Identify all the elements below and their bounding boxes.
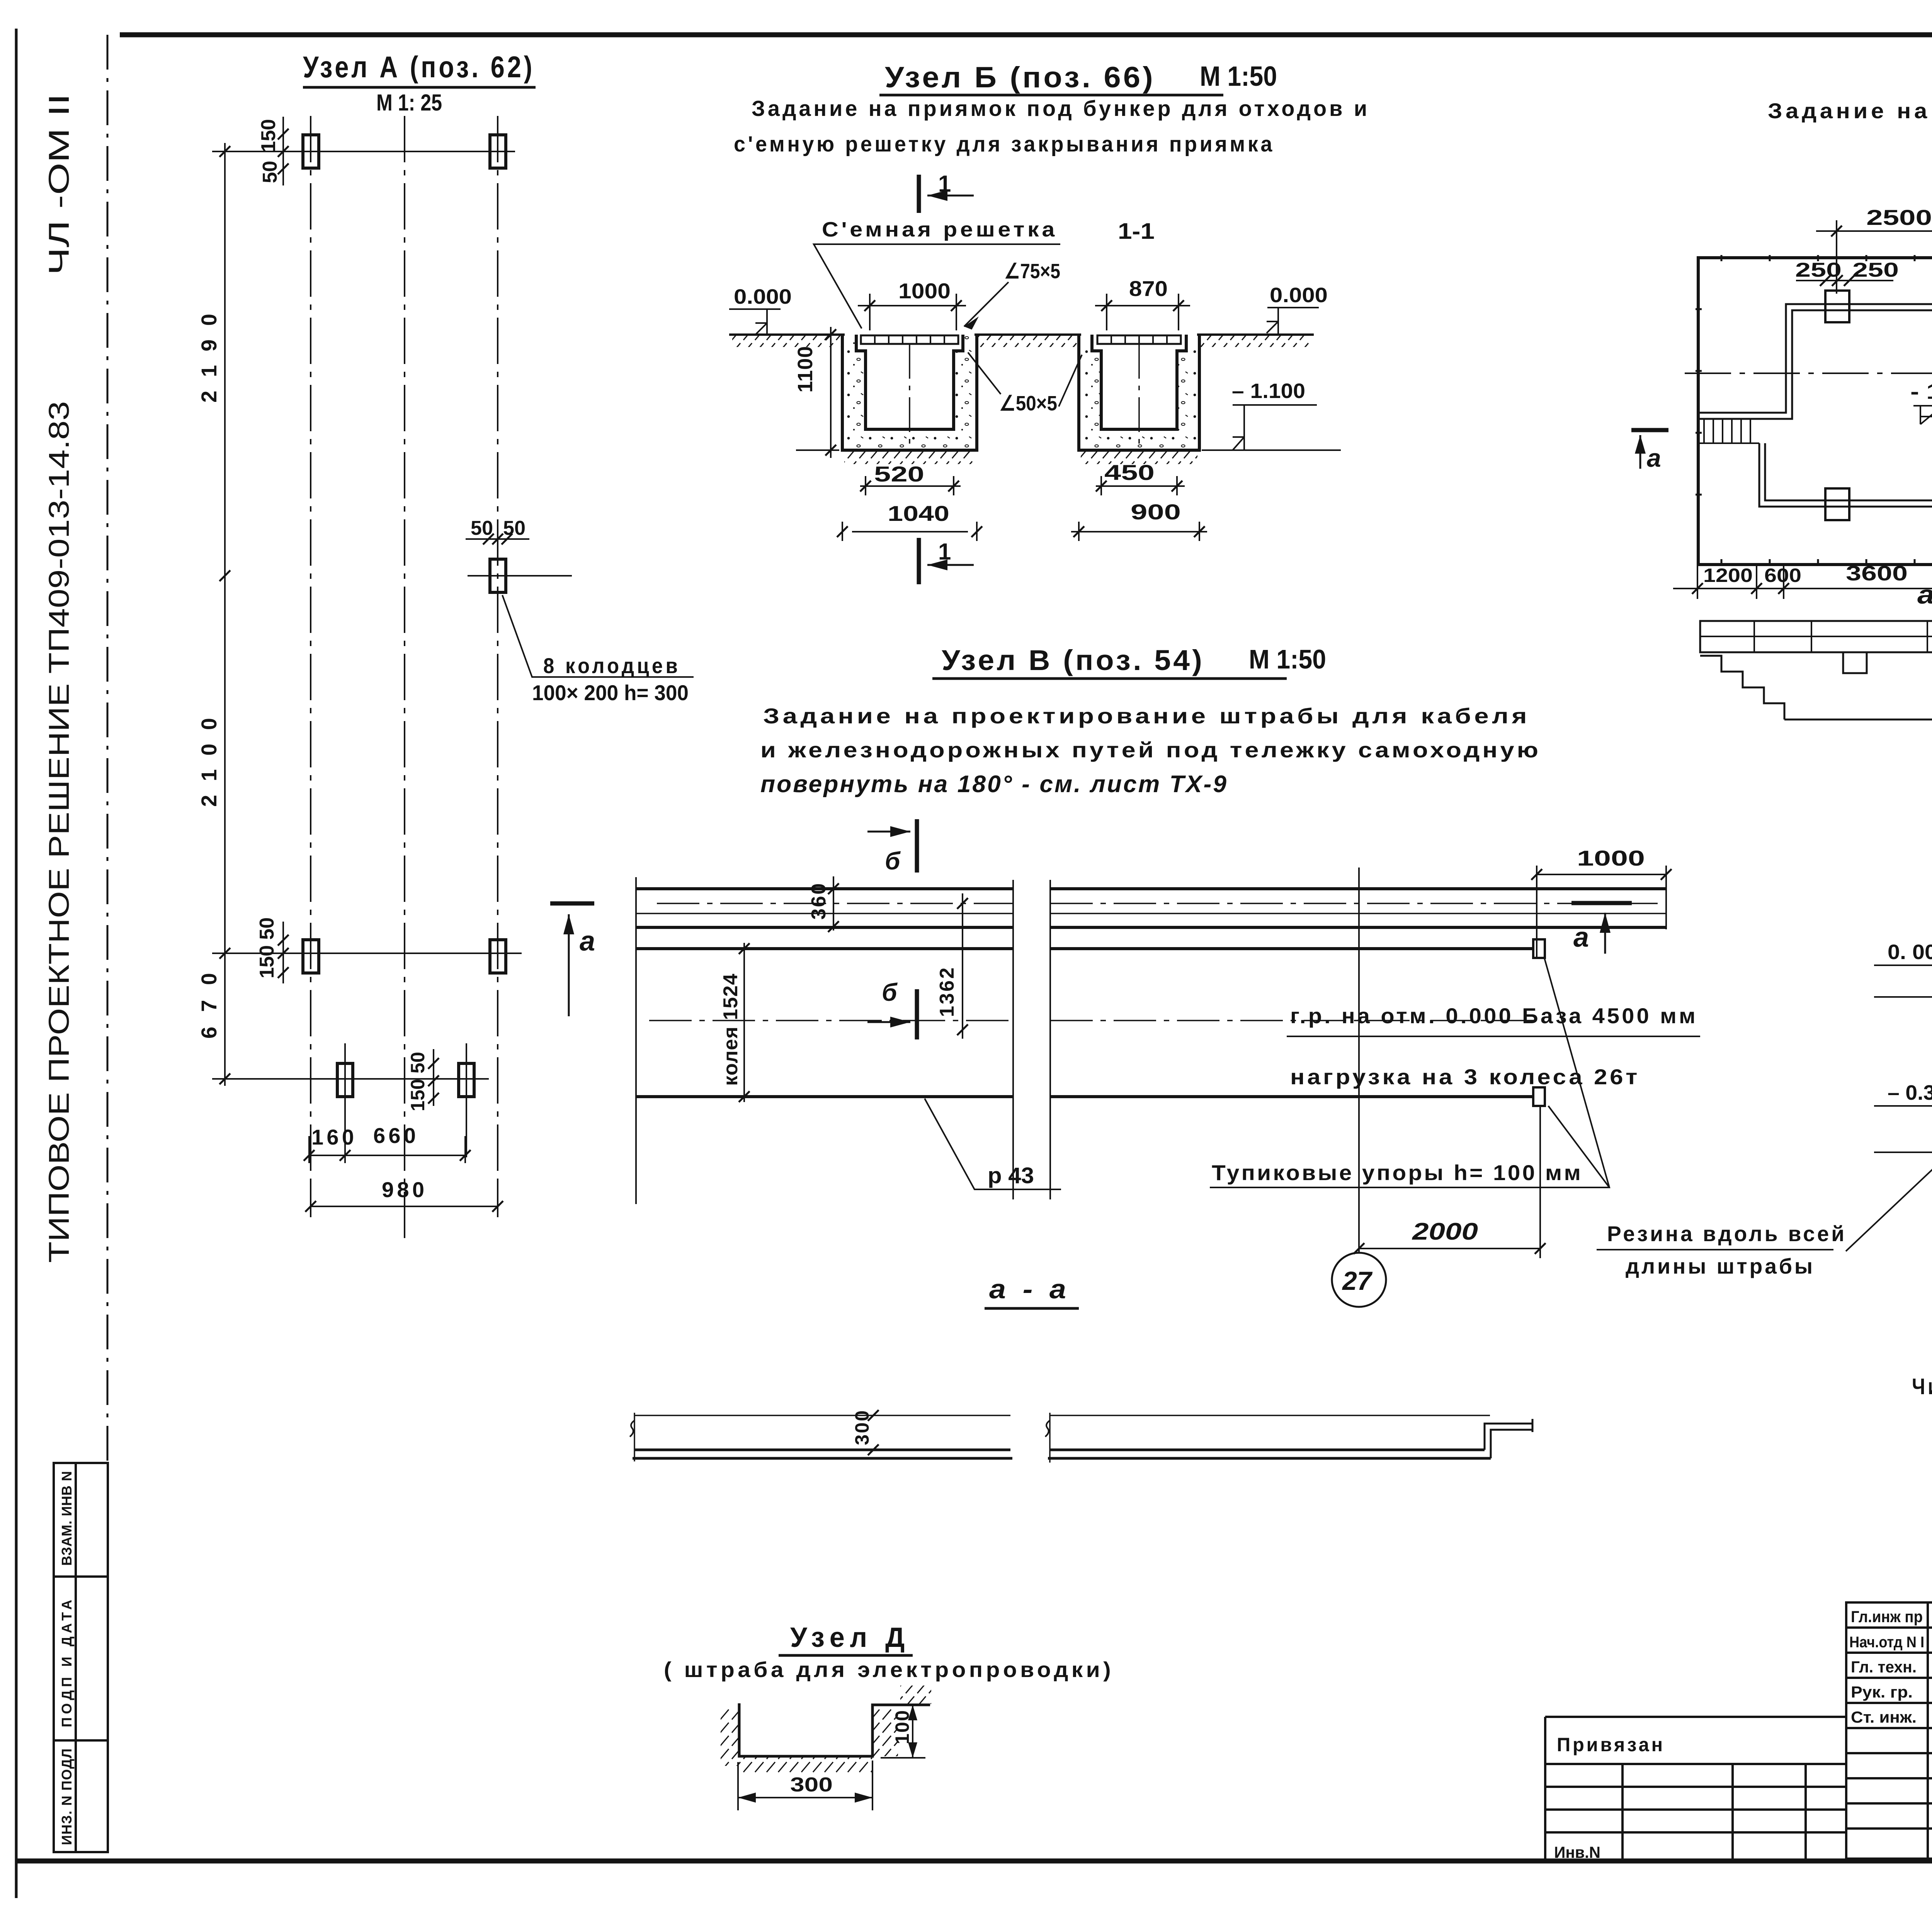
left band rail lines <box>633 1450 1012 1458</box>
svg-text:б: б <box>882 978 898 1006</box>
rails left end line <box>635 877 637 1204</box>
svg-text:50: 50 <box>407 1052 429 1073</box>
svg-text:1: 1 <box>938 539 951 565</box>
Г section stairs <box>1700 656 1784 720</box>
callout leader 8 колодцев <box>502 595 694 677</box>
column well r1c2 <box>490 135 506 168</box>
pit1 concrete walls <box>842 335 977 450</box>
svg-text:Узел А (поз. 62): Узел А (поз. 62) <box>303 50 535 84</box>
sheet top border <box>120 32 1932 37</box>
svg-text:1100: 1100 <box>794 346 817 393</box>
svg-text:600: 600 <box>1764 565 1801 586</box>
svg-text:1200: 1200 <box>1703 565 1753 586</box>
sheet bottom border <box>16 1859 1932 1864</box>
svg-text:1000: 1000 <box>898 279 951 303</box>
dim 50/150 row3 line <box>433 1049 434 1106</box>
axis row mid horizontal <box>468 575 572 577</box>
column well r2c1 <box>303 940 319 973</box>
buffer stop square top <box>1533 939 1545 958</box>
column well r1c1 <box>303 135 319 168</box>
dim 50/50 line <box>466 538 529 540</box>
ground line middle <box>975 333 1081 336</box>
section mark 1 bottom <box>917 538 921 584</box>
svg-text:980: 980 <box>382 1177 424 1202</box>
pit1 under-slab hatch <box>844 452 975 464</box>
trench hatch right wall <box>873 1708 898 1756</box>
svg-text:ИНЗ. N ПОДЛ: ИНЗ. N ПОДЛ <box>59 1749 75 1845</box>
axis row 3 horizontal <box>212 1078 489 1080</box>
leader резина <box>1846 1016 1932 1251</box>
svg-text:колея 1524: колея 1524 <box>719 974 742 1086</box>
svg-text:Ст. инж.: Ст. инж. <box>1851 1708 1917 1726</box>
svg-text:1-1: 1-1 <box>1118 219 1155 244</box>
svg-text:С'емная решетка: С'емная решетка <box>822 218 1058 241</box>
svg-text:Узел В (поз. 54): Узел В (поз. 54) <box>942 644 1204 676</box>
svg-text:870: 870 <box>1129 276 1168 301</box>
column well r3c1 <box>337 1063 353 1097</box>
plan edge ticks bottom <box>1721 559 1932 565</box>
dim 160/660 ticks <box>304 1150 471 1161</box>
right band end step <box>1485 1419 1532 1458</box>
section mark a right <box>1571 901 1632 905</box>
svg-text:а: а <box>580 926 595 957</box>
svg-text:Нач.отд N I: Нач.отд N I <box>1849 1634 1924 1651</box>
svg-text:8 колодцев: 8 колодцев <box>543 653 680 678</box>
break marks <box>630 1420 1050 1437</box>
axis line vertical 1 <box>310 116 311 1209</box>
svg-text:Тупиковые упоры h= 100 мм: Тупиковые упоры h= 100 мм <box>1212 1160 1583 1185</box>
pit inner contour outer line <box>1699 304 1932 507</box>
svg-text:Задание на проектирование ш: Задание на проектирование штрабы для каб… <box>763 704 1530 728</box>
svg-text:2500: 2500 <box>1866 205 1932 230</box>
ground line left <box>729 333 845 336</box>
svg-text:300: 300 <box>790 1774 833 1796</box>
svg-text:Задание на проектирование п: Задание на проектирование приямка и опор… <box>1768 99 1932 123</box>
svg-text:0.000: 0.000 <box>734 285 792 308</box>
svg-text:Узел Д: Узел Д <box>790 1622 910 1653</box>
svg-text:50: 50 <box>503 517 526 539</box>
dim 160/660 line <box>309 1136 465 1163</box>
привязан table <box>1545 1717 1846 1861</box>
tick r1 <box>219 146 230 157</box>
left band end line <box>634 1413 635 1461</box>
pit2 axis <box>1138 344 1140 444</box>
svg-text:– 1.100: – 1.100 <box>1232 379 1305 403</box>
rail break line right <box>1049 880 1051 1199</box>
svg-text:ПОДП И ДАТА: ПОДП И ДАТА <box>59 1600 75 1727</box>
section mark б lower <box>915 989 919 1039</box>
svg-text:300: 300 <box>851 1410 873 1445</box>
wide track rail 2 <box>636 1095 1533 1098</box>
pit1 outline <box>842 335 977 450</box>
axis line vertical 3 <box>497 116 498 1209</box>
node circle 27 <box>1332 1253 1386 1307</box>
pit inner contour inner line <box>1699 310 1932 500</box>
plan edge ticks left/right <box>1696 309 1932 495</box>
Г section а-а: slab band <box>1700 621 1932 652</box>
svg-text:1000: 1000 <box>1577 846 1645 870</box>
svg-text:1: 1 <box>938 171 951 197</box>
svg-text:∠50×5: ∠50×5 <box>999 392 1057 415</box>
buffer stop square bottom <box>1533 1087 1545 1106</box>
section mark a left (plan Г) <box>1631 428 1668 432</box>
svg-text:ЧЛ -ОМ II: ЧЛ -ОМ II <box>43 94 75 275</box>
section mark б top <box>915 819 919 873</box>
svg-text:660: 660 <box>373 1123 416 1148</box>
svg-text:р 43: р 43 <box>988 1163 1034 1188</box>
svg-text:а: а <box>1647 444 1661 472</box>
pit2 concrete walls <box>1079 335 1199 450</box>
trench hatch left <box>721 1708 739 1766</box>
sheet left border <box>15 29 18 1898</box>
narrow track rail 2 <box>636 926 1666 929</box>
svg-text:( штраба для электропроводки: ( штраба для электропроводки) <box>664 1657 1114 1682</box>
pit2 outline <box>1079 335 1199 450</box>
stairs in plan <box>1699 419 1759 443</box>
right band top line <box>1050 1415 1490 1416</box>
svg-text:– 0.300: – 0.300 <box>1888 1081 1932 1104</box>
svg-text:250: 250 <box>1795 259 1842 281</box>
plan outer wall <box>1698 258 1932 565</box>
svg-text:Задание на приямок под бунк: Задание на приямок под бункер для отходо… <box>752 96 1370 121</box>
support bottom-left <box>1825 488 1849 520</box>
dim 980 line <box>311 1182 498 1217</box>
svg-text:ВЗАМ. ИНВ N: ВЗАМ. ИНВ N <box>59 1471 75 1566</box>
svg-text:50: 50 <box>259 161 281 183</box>
right band rail lines <box>1048 1450 1491 1458</box>
section mark a left <box>550 902 594 906</box>
tick r3 <box>219 1073 230 1084</box>
svg-text:250: 250 <box>1852 259 1899 281</box>
svg-text:Гл. техн.: Гл. техн. <box>1851 1658 1917 1676</box>
svg-text:150: 150 <box>257 119 280 152</box>
svg-text:Рук. гр.: Рук. гр. <box>1851 1683 1913 1701</box>
dim 50/150 row2 line <box>282 922 284 983</box>
svg-text:50: 50 <box>256 917 278 940</box>
left band top line <box>634 1415 1010 1416</box>
right band left end line <box>1049 1413 1051 1463</box>
plan edge ticks top <box>1721 255 1932 261</box>
dim 150/50 row1 ticks <box>278 129 289 174</box>
svg-text:М 1:50: М 1:50 <box>1200 61 1277 92</box>
svg-text:160: 160 <box>311 1125 354 1149</box>
dim row2 ticks <box>278 935 289 978</box>
dim row3 ticks <box>428 1058 439 1104</box>
callout p43 <box>925 1099 1061 1189</box>
pit1 grating <box>861 335 958 344</box>
svg-text:360: 360 <box>808 883 830 920</box>
pit2 grating <box>1097 335 1181 344</box>
tick mid <box>219 570 230 581</box>
wide track axis <box>649 1020 1542 1021</box>
long vertical line to node 27 <box>1358 867 1360 1252</box>
svg-text:150: 150 <box>256 945 278 978</box>
titleblock signature table frame <box>1846 1602 1932 1859</box>
tick r2 <box>219 948 230 959</box>
svg-text:2000: 2000 <box>1412 1218 1478 1245</box>
svg-text:М 1: 25: М 1: 25 <box>376 90 442 116</box>
dim 980 ticks <box>305 1201 503 1212</box>
narrow track rail 1 <box>636 887 1666 890</box>
svg-text:670: 670 <box>197 973 221 1039</box>
svg-text:100× 200 h= 300: 100× 200 h= 300 <box>532 680 689 705</box>
svg-text:Привязан: Привязан <box>1557 1734 1665 1755</box>
svg-text:- 1.400: - 1.400 <box>1910 379 1932 403</box>
svg-text:3600: 3600 <box>1846 562 1908 585</box>
svg-text:150: 150 <box>407 1079 429 1111</box>
narrow track right end cap <box>1665 887 1667 929</box>
support top-left <box>1825 291 1849 322</box>
narrow track rail inner edge <box>636 913 1666 914</box>
Г section support blocks <box>1843 652 1932 673</box>
svg-text:и железнодорожных путей под те: и железнодорожных путей под тележку само… <box>760 738 1541 762</box>
pit1 axis <box>909 344 910 444</box>
svg-text:27: 27 <box>1342 1266 1373 1296</box>
axis row 2 horizontal <box>212 953 522 954</box>
ground line right <box>1197 333 1314 336</box>
axis stub bottom row 1 <box>344 1043 346 1157</box>
bottom dim chain of plan <box>1673 566 1932 599</box>
svg-text:Резина вдоль всей: Резина вдоль всей <box>1607 1221 1847 1246</box>
dim 50/50 ticks <box>483 534 512 544</box>
svg-text:520: 520 <box>874 462 924 486</box>
column well r3c2 <box>459 1063 474 1097</box>
trench outline <box>739 1703 930 1756</box>
sheet inner margin line (dash-dot) <box>107 35 109 1463</box>
Г section pit floor <box>1784 652 1932 720</box>
left dim chain line <box>224 143 226 1086</box>
svg-text:0. 000: 0. 000 <box>1888 941 1932 964</box>
plan centre axis horizontal <box>1685 373 1932 374</box>
svg-text:50: 50 <box>471 517 493 539</box>
svg-text:с'емную решетку для закры: с'емную решетку для закрывания приямка <box>734 132 1275 156</box>
svg-text:повернуть на 180° - см. лис: повернуть на 180° - см. лист ТХ-9 <box>760 771 1228 798</box>
wide track rail 1 <box>636 947 1533 950</box>
svg-text:ТИПОВОЕ ПРОЕКТНОЕ РЕШЕНИЕ ТП40: ТИПОВОЕ ПРОЕКТНОЕ РЕШЕНИЕ ТП409-013-14.8… <box>43 401 75 1263</box>
svg-text:длины штрабы: длины штрабы <box>1626 1254 1815 1278</box>
pit2 under-slab hatch <box>1081 452 1197 464</box>
svg-text:Узел Б (поз. 66): Узел Б (поз. 66) <box>885 61 1155 94</box>
svg-text:нагрузка на 3 колеса 26т: нагрузка на 3 колеса 26т <box>1290 1065 1640 1089</box>
svg-text:1040: 1040 <box>888 501 949 526</box>
svg-text:900: 900 <box>1131 500 1181 524</box>
section mark 1 top <box>917 175 921 213</box>
svg-text:г.р. на отм. 0.000 База 4500 м: г.р. на отм. 0.000 База 4500 мм <box>1290 1004 1698 1028</box>
svg-text:0.000: 0.000 <box>1270 284 1328 307</box>
axis row 1 horizontal <box>212 151 515 152</box>
svg-text:М 1:50: М 1:50 <box>1249 644 1326 674</box>
svg-text:∠75×5: ∠75×5 <box>1004 260 1060 283</box>
column well mid-right <box>490 559 506 592</box>
dim 150/50 row1: line <box>282 117 284 185</box>
stamp column boxes bottom-left <box>54 1463 108 1852</box>
column well r2c2 <box>490 940 506 973</box>
svg-text:Инв.N: Инв.N <box>1554 1843 1600 1861</box>
narrow track axis <box>657 903 1658 904</box>
trench hatch right top <box>900 1686 931 1704</box>
svg-text:Гл.инж пр: Гл.инж пр <box>1851 1607 1923 1626</box>
rail break line left <box>1012 880 1014 1199</box>
svg-text:Читать совместно с чертежа: Читать совместно с чертежами <box>1912 1374 1932 1399</box>
trench hatch bottom <box>739 1757 872 1774</box>
svg-text:а - а: а - а <box>1917 580 1932 609</box>
axis line vertical 2 <box>404 116 405 1241</box>
svg-text:а - а: а - а <box>989 1274 1070 1304</box>
axis stub bottom row 2 <box>466 1043 467 1157</box>
svg-text:450: 450 <box>1104 460 1155 485</box>
svg-text:б: б <box>885 847 901 875</box>
